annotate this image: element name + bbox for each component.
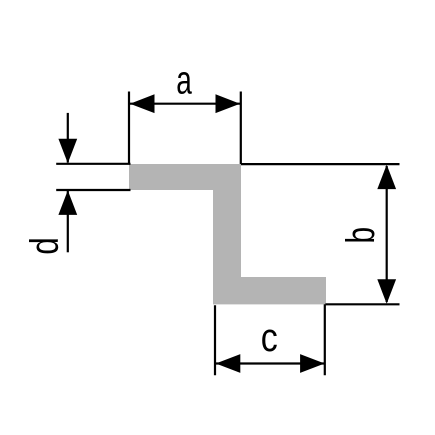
svg-text:d: d [21, 237, 66, 255]
svg-text:c: c [261, 314, 278, 359]
svg-text:b: b [339, 227, 383, 244]
svg-text:a: a [176, 59, 192, 103]
